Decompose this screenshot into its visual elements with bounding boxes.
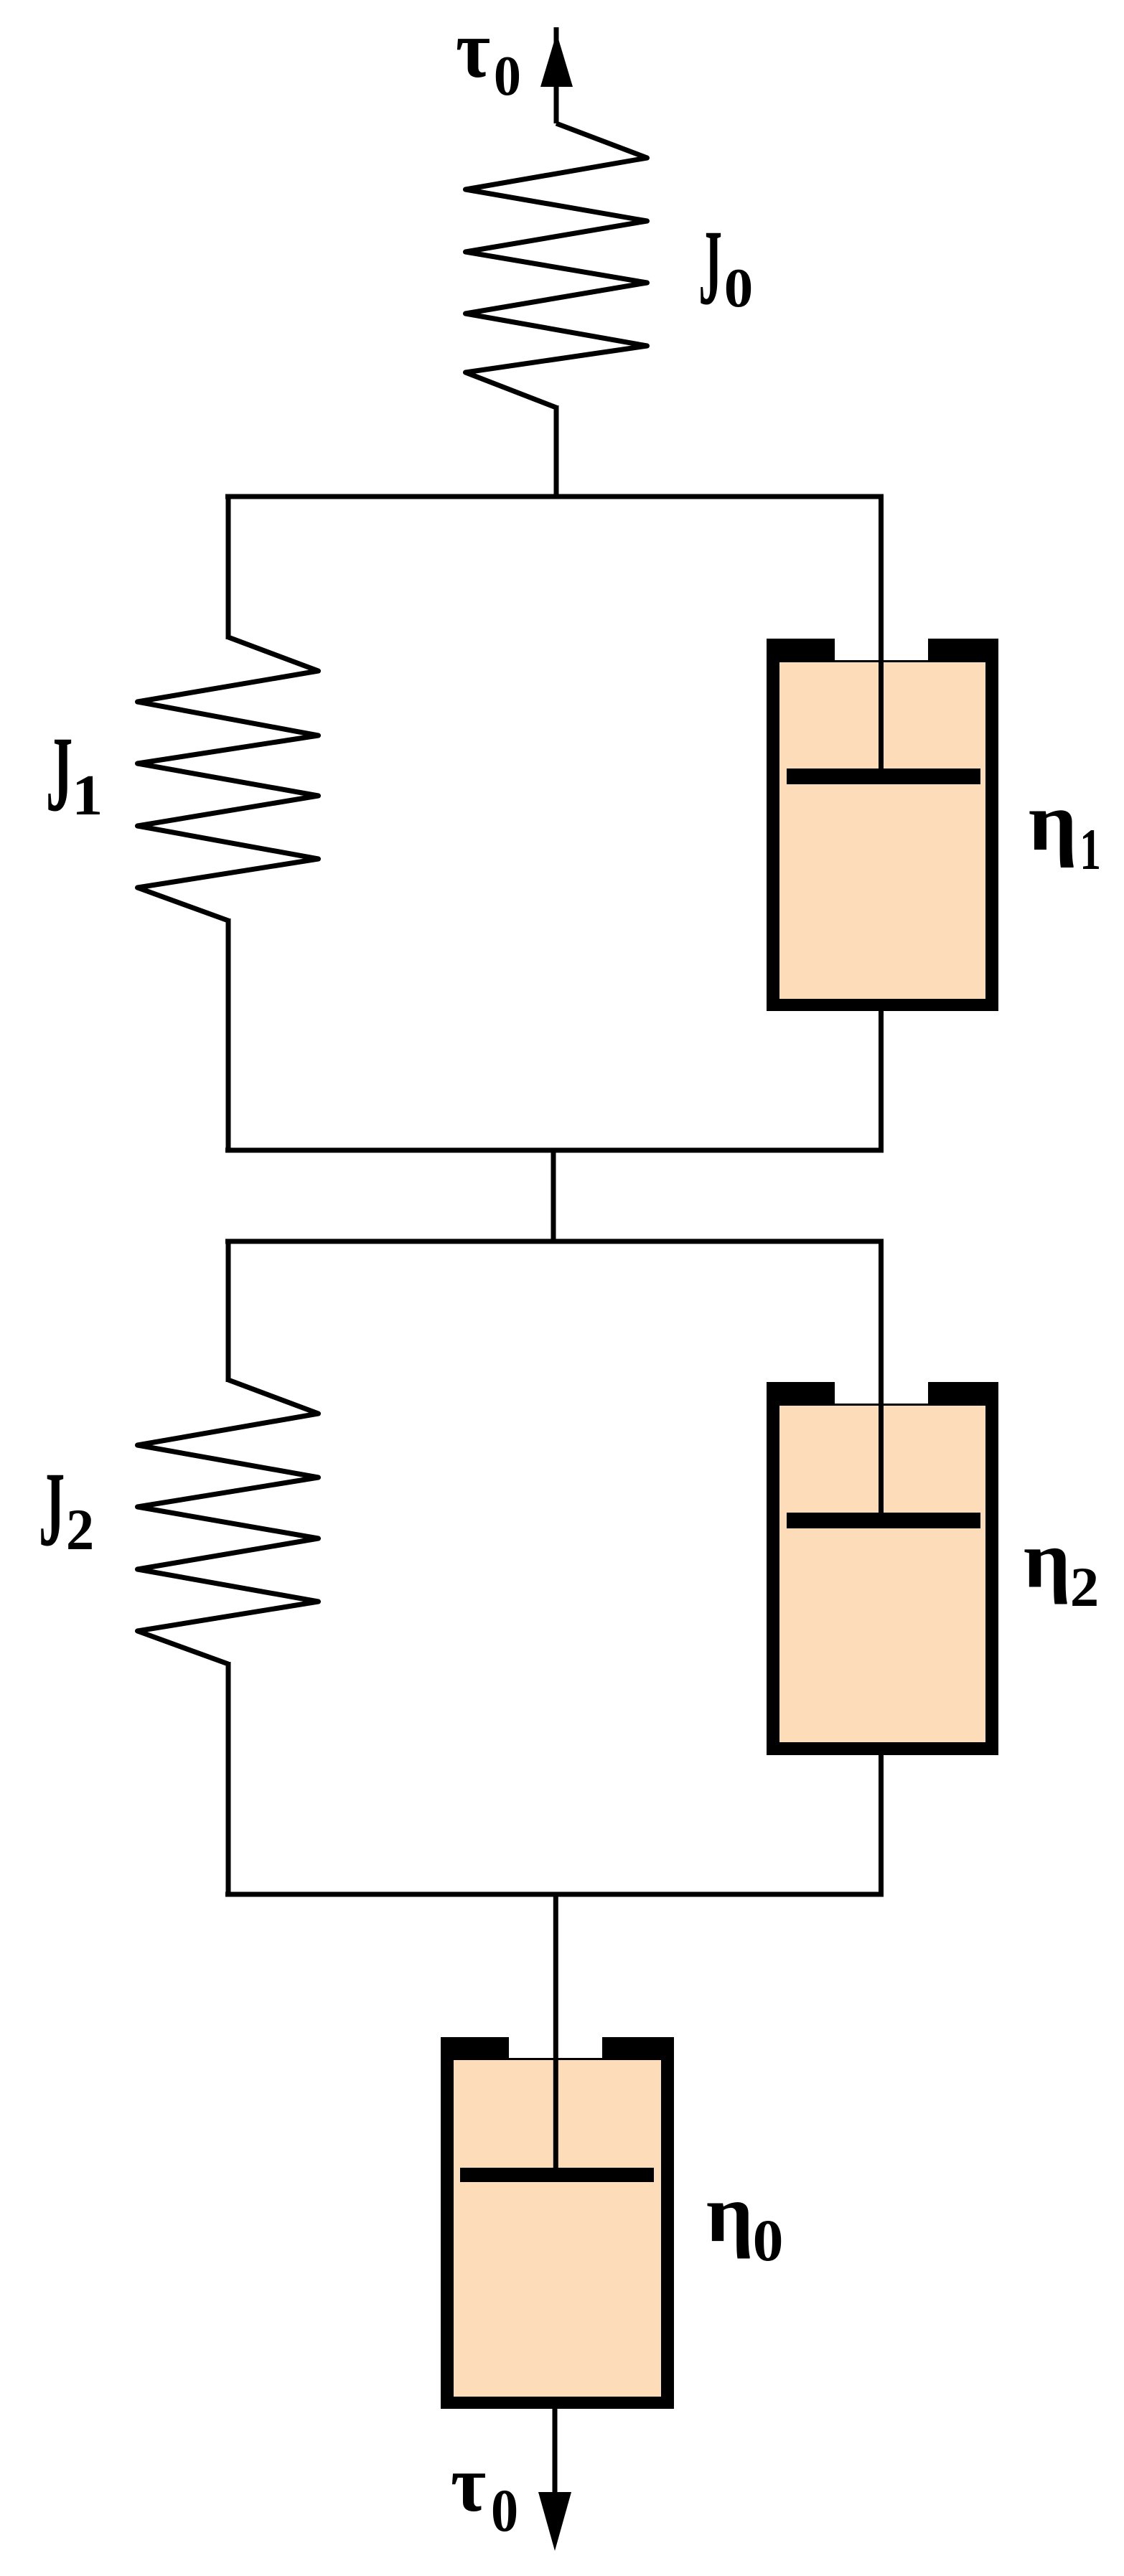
svg-text:τ: τ [451, 2438, 486, 2528]
spring J0 (series spring) [466, 123, 647, 408]
svg-text:2: 2 [66, 1498, 94, 1563]
wire: section-1 left upper lead [226, 494, 231, 640]
svg-text:0: 0 [753, 2209, 784, 2274]
label tau_0 (bottom) [451, 2438, 486, 2528]
dashpot eta0 [441, 2037, 674, 2409]
svg-text:J: J [46, 715, 72, 834]
svg-text:J: J [39, 1451, 65, 1569]
wire: J0 bottom lead [554, 405, 559, 499]
svg-text:1: 1 [72, 764, 103, 828]
spring J1 [138, 637, 319, 921]
label eta2 [1024, 1515, 1071, 1604]
dashpot eta1 [767, 639, 998, 1011]
node: section-1 bottom rail [225, 1148, 884, 1153]
label J1 [46, 715, 72, 834]
node: section-2 bottom rail [225, 1892, 884, 1897]
svg-text:1: 1 [1079, 817, 1101, 882]
wire: section-1 right upper lead (dashpot rod) [879, 494, 884, 771]
svg-text:η: η [1029, 776, 1077, 868]
svg-text:τ: τ [456, 4, 490, 95]
svg-text:2: 2 [1070, 1556, 1099, 1619]
label J0 [698, 209, 722, 328]
node: top stress input, arrow up [554, 27, 559, 123]
node: section-2 top rail [225, 1239, 884, 1244]
label eta1 [1029, 776, 1077, 868]
wire: section-1 right lower lead [879, 1011, 884, 1153]
wire: section-2 right lower lead [879, 1755, 884, 1897]
dashpot eta2 [767, 1382, 998, 1755]
wire: bottom lead [553, 2409, 558, 2497]
svg-text:η: η [706, 2168, 754, 2259]
svg-text:0: 0 [491, 2477, 518, 2544]
wire: section-2 left lower lead [226, 1662, 231, 1897]
wire: section-2 right upper lead (dashpot rod) [879, 1239, 884, 1516]
spring J2 [138, 1380, 319, 1664]
wire: section-2 left upper lead [226, 1239, 231, 1383]
svg-text:η: η [1024, 1515, 1071, 1604]
svg-text:0: 0 [494, 44, 521, 108]
label tau_0 (top) [456, 4, 490, 95]
wire: lower series connector (dashpot eta0 rod) [553, 1892, 558, 2170]
svg-text:J: J [698, 209, 722, 328]
label eta0 [706, 2168, 754, 2259]
node: bottom stress output, arrow down [538, 2492, 571, 2551]
svg-text:0: 0 [724, 258, 753, 319]
wire: section-1 left lower lead [226, 918, 231, 1153]
label J2 [39, 1451, 65, 1569]
node: section-1 top rail [225, 494, 884, 499]
wire: series connector between sections [551, 1148, 556, 1244]
